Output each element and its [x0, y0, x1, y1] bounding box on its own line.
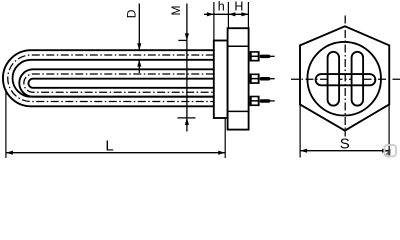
dimension S line	[300, 150, 389, 152]
dimension L right extension line	[224, 119, 226, 158]
tube outer hairpin centerline	[8, 55, 214, 102]
tube inner hairpin centerline	[24, 74, 214, 92]
dimension M arrow down	[185, 33, 189, 40]
dimension L line	[6, 152, 225, 154]
dimension S left extension line	[299, 101, 301, 158]
tube outer hairpin inner edge	[13, 60, 214, 97]
H arrow right-pointing	[241, 12, 248, 16]
dimension H right extension line	[247, 2, 249, 28]
svg-text:L: L	[105, 138, 113, 155]
h arrow right-pointing	[207, 12, 214, 16]
watermark logo	[384, 145, 396, 156]
terminal stud 2 shaft	[260, 77, 271, 81]
right tube slot	[352, 52, 364, 106]
svg-text:M: M	[169, 6, 183, 16]
S arrow right	[382, 149, 389, 153]
S arrow left	[300, 149, 307, 153]
tube outer hairpin outline	[3, 50, 214, 106]
svg-text:S: S	[340, 136, 350, 153]
hex plug facet line upper	[228, 45, 249, 47]
terminal stud 1 shaft	[260, 55, 271, 59]
dimension D lower stub	[138, 60, 140, 73]
terminal stud 3 shaft	[260, 99, 271, 103]
terminal stud 3 pin	[270, 100, 275, 102]
dimension D leader line upper	[138, 4, 140, 50]
svg-text:h: h	[218, 0, 225, 14]
thread circle	[307, 42, 381, 116]
hexagon end view	[300, 26, 389, 130]
terminal stud 3 nut	[250, 96, 260, 106]
tube inner hairpin inner edge	[28, 79, 213, 88]
dimension M upper tick	[178, 39, 187, 41]
hex plug block side view	[228, 28, 249, 129]
horizontal bracket stadium	[316, 74, 376, 85]
dimension h extension line	[213, 2, 215, 40]
dimension M arrow up	[185, 118, 189, 125]
terminal stud 1 nut	[250, 51, 260, 61]
terminal stud 2 pin	[270, 78, 275, 80]
dimension D arrow up	[137, 60, 141, 67]
vertical centerline	[344, 16, 346, 137]
L arrow left	[6, 151, 13, 155]
dimension M lower tick	[178, 117, 196, 119]
dimension L left extension line	[5, 89, 7, 158]
svg-text:D: D	[125, 9, 139, 18]
terminal stud 2 nut	[250, 74, 260, 84]
H arrow left-pointing	[228, 12, 235, 16]
dimension h/H line	[204, 13, 248, 15]
hex plug facet line lower	[228, 110, 249, 112]
horizontal centerline	[291, 78, 400, 80]
dimension H left extension line	[227, 2, 229, 28]
mounting plate	[214, 41, 228, 119]
tube inner hairpin outline	[19, 69, 214, 96]
dimension D arrow down	[137, 43, 141, 50]
left tube slot	[328, 52, 340, 106]
svg-text:H: H	[234, 0, 243, 13]
dimension S right extension line	[388, 101, 390, 158]
terminal stud 1 pin	[270, 55, 275, 57]
L arrow right	[218, 151, 225, 155]
dimension M line	[186, 4, 188, 132]
